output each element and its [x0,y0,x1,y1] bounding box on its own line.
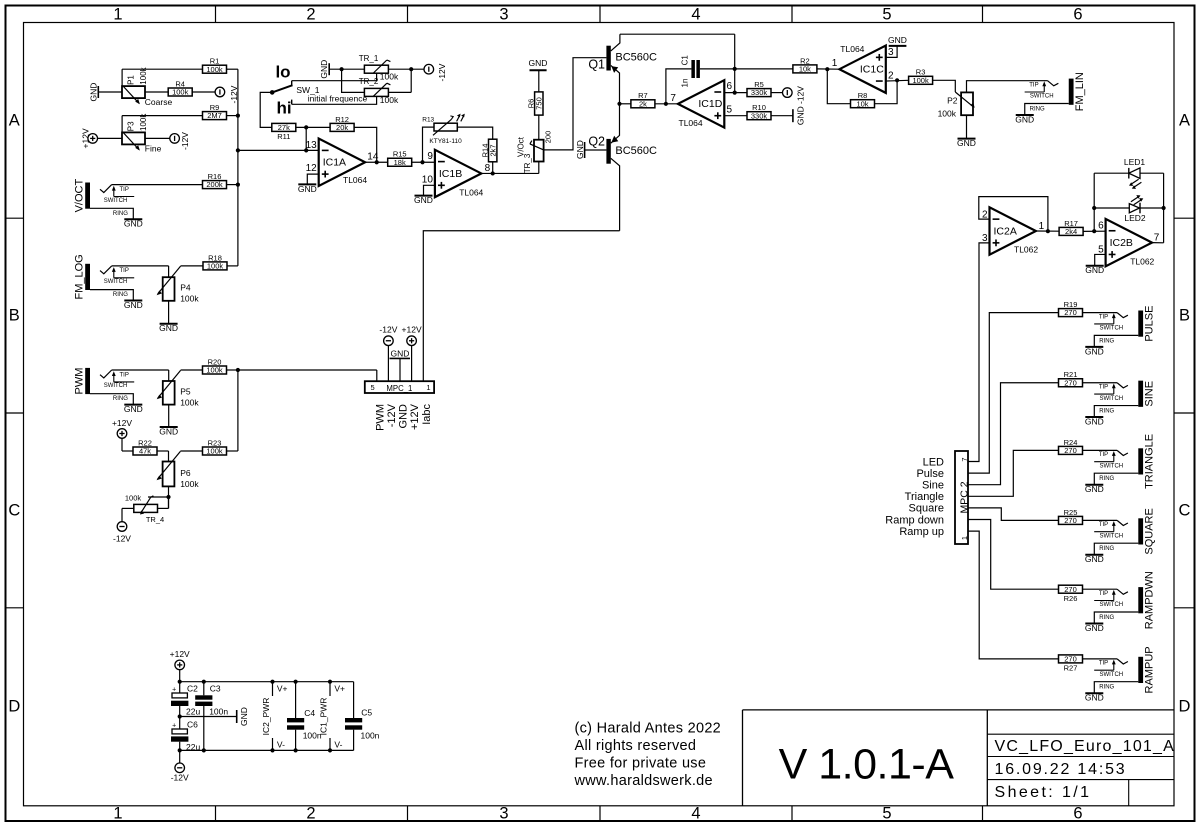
resistor R20 [203,366,227,374]
wire [158,507,169,509]
wire [1083,658,1117,660]
wire [179,670,181,693]
node [733,91,737,95]
svg-text:3: 3 [499,6,508,24]
svg-text:GND: GND [957,138,976,148]
wire [179,742,181,763]
svg-text:R6: R6 [527,99,536,109]
svg-text:SWITCH: SWITCH [104,383,128,389]
ground [958,138,976,140]
TRIANGLE switch arrow [1113,453,1115,461]
svg-text:RING: RING [113,396,128,402]
svg-text:GND: GND [1085,484,1104,494]
svg-text:IC1B: IC1B [439,168,462,180]
wire R20 to MPC_1 [238,369,377,371]
trimmer TR_4 [134,504,158,512]
svg-text:16.09.22 14:53: 16.09.22 14:53 [995,761,1127,778]
op-amp IC1D [678,80,724,127]
node [895,78,899,82]
svg-text:Fine: Fine [145,144,162,154]
svg-text:GND: GND [159,323,178,333]
svg-text:100k: 100k [125,494,142,503]
node emitters [617,102,621,106]
FM_LOG tip contact [100,266,112,274]
svg-text:C: C [1179,502,1191,520]
thermistor R13 KTY81-110 [434,123,457,131]
svg-text:200: 200 [544,131,553,144]
svg-text:100k: 100k [206,65,223,74]
resistor R26 [1059,585,1083,593]
resistor R9 [203,112,227,120]
jack PULSE [1138,311,1143,337]
jack FM_LOG [85,264,90,290]
RAMPDWN switch line [1094,600,1114,602]
wire main bus [237,69,239,266]
wire P6 bottom [168,486,170,508]
svg-text:B: B [9,307,20,325]
resistor R21 [1059,379,1083,387]
svg-text:RING: RING [1030,107,1045,113]
wire LED right branch [1163,173,1165,243]
svg-text:R11: R11 [277,132,290,141]
svg-text:V/OCT: V/OCT [74,179,86,213]
svg-text:PULSE: PULSE [1144,306,1156,342]
wire [538,70,540,92]
node [340,67,344,71]
resistor R3 [909,76,933,84]
wire IC1B + to ground [424,185,435,195]
svg-text:100k: 100k [180,294,199,304]
svg-text:3: 3 [982,233,988,244]
PWM tip contact [100,370,112,378]
svg-text:270: 270 [1064,516,1077,525]
svg-text:TL062: TL062 [1014,245,1038,255]
ground [530,69,547,71]
node [178,680,182,684]
resistor R12 [330,123,354,131]
node [328,680,332,684]
wire main bus lower [237,370,239,451]
jack RAMPUP [1138,657,1143,683]
svg-text:MPC_1: MPC_1 [386,384,412,393]
resistor R5 [747,89,771,97]
svg-text:V+: V+ [334,684,345,694]
wire IC2B output [1152,242,1164,244]
resistor R4 [168,88,192,96]
svg-text:C2: C2 [187,684,198,694]
svg-text:IC1A: IC1A [323,157,346,169]
LED LED2 [1094,207,1129,209]
wire [226,68,238,70]
wire [181,369,203,371]
LED LED1 [1094,172,1129,174]
svg-text:RING: RING [1099,685,1114,691]
FM_LIN switch line [1025,91,1045,93]
svg-text:5: 5 [727,105,733,116]
svg-text:R22: R22 [138,438,152,447]
node [825,67,829,71]
wire pin6 [724,92,747,94]
svg-text:9: 9 [427,151,433,162]
wire [771,115,793,117]
svg-text:IC2B: IC2B [1110,237,1133,249]
svg-text:RING: RING [1099,476,1114,482]
svg-text:GND: GND [529,58,548,68]
trimmer TR_3 [534,140,544,162]
ground [1086,265,1104,267]
svg-text:RING: RING [113,211,128,217]
ground [298,183,316,185]
+12V supply [175,660,185,670]
svg-text:V-: V- [277,740,285,750]
svg-text:3: 3 [499,805,508,823]
wire switch common [260,92,272,127]
svg-text:IC2_PWR: IC2_PWR [261,698,271,736]
svg-text:P1: P1 [126,75,135,85]
svg-text:R25: R25 [1064,508,1078,517]
node [178,714,182,718]
node [375,160,379,164]
V/OCT ring wire [90,208,133,219]
svg-text:GND: GND [124,404,143,414]
svg-text:TL064: TL064 [840,44,864,54]
wire pin3 to R25 [968,508,1058,521]
svg-text:GND: GND [159,426,178,436]
wire TR_1 wiper stub [373,72,377,74]
wire [655,103,678,105]
svg-text:R26: R26 [1064,594,1078,603]
svg-text:100k: 100k [207,262,224,271]
jack TRIANGLE [1138,448,1143,474]
svg-text:GND: GND [795,106,805,125]
capacitor C4 100n [295,682,297,718]
wire [192,91,215,93]
svg-text:100n: 100n [361,731,380,741]
svg-text:RING: RING [113,292,128,298]
svg-text:-12V: -12V [379,325,397,335]
svg-text:D: D [1179,698,1191,716]
-12V supply [783,88,793,98]
ground [1085,346,1103,348]
svg-text:hi: hi [276,99,291,118]
svg-text:P4: P4 [180,283,191,293]
wire [1083,230,1105,232]
wire TR_3 bottom to IC1B out [538,162,540,174]
wire [329,68,364,70]
svg-text:BC560C: BC560C [615,145,657,157]
LED1 arrows [1132,179,1139,184]
svg-text:R8: R8 [858,91,868,100]
svg-text:GND: GND [1085,416,1104,426]
svg-text:270: 270 [1064,655,1077,664]
svg-text:www.haraldswerk.de: www.haraldswerk.de [574,773,713,789]
ground [1085,416,1103,418]
-12V supply [384,336,394,346]
capacitor C6 22u [172,729,187,734]
svg-text:TIP: TIP [1099,661,1108,667]
PWM switch arrow [113,373,115,382]
V/OCT tip contact [100,185,112,193]
svg-text:R4: R4 [175,79,185,88]
svg-text:1: 1 [960,536,969,540]
svg-text:100k: 100k [180,479,199,489]
resistor R22 [133,447,157,455]
wire [410,69,412,92]
svg-text:V-: V- [334,740,342,750]
wire pin5 to R21 [968,383,1058,485]
svg-text:P6: P6 [180,468,191,478]
wire [181,265,204,267]
svg-text:6: 6 [1073,805,1082,823]
svg-text:FM_LIN: FM_LIN [1074,72,1086,111]
wire IC1C pin3 to ground [886,46,897,57]
wire [227,265,238,267]
svg-text:10k: 10k [856,99,868,108]
IC1 power pins [329,682,331,696]
svg-text:BC560C: BC560C [615,51,657,63]
svg-text:Free for private use: Free for private use [575,756,707,772]
wire [112,184,203,186]
svg-text:V+: V+ [277,684,288,694]
svg-text:Iabc: Iabc [421,404,433,425]
SQUARE switch arrow [1113,523,1115,531]
svg-text:R23: R23 [208,438,222,447]
jack PWM [85,368,90,394]
node [733,67,737,71]
wire [1083,588,1117,590]
FM_LOG switch arrow [113,269,115,278]
SINE tip contact [1117,383,1128,388]
resistor R23 [203,447,227,455]
svg-text:8: 8 [485,163,491,174]
svg-text:+12V: +12V [409,403,421,430]
svg-text:Triangle: Triangle [905,491,944,503]
ground [160,426,178,428]
svg-text:330k: 330k [751,111,768,120]
wire IC2A output [1036,230,1059,232]
svg-text:R21: R21 [1064,370,1078,379]
svg-text:TIP: TIP [1099,522,1108,528]
svg-text:2M7: 2M7 [207,111,222,120]
connector MPC_2 [955,451,968,544]
svg-text:RAMPUP: RAMPUP [1144,646,1156,693]
svg-text:100k: 100k [938,108,957,118]
jack FM_LIN [1069,79,1074,105]
svg-text:6: 6 [1073,6,1082,24]
wire [1083,519,1117,521]
svg-text:FM_LOG: FM_LOG [74,254,86,299]
wire P5 to ground [168,405,170,427]
wire [387,346,389,382]
svg-text:18k: 18k [394,158,406,167]
RAMPUP switch line [1094,669,1114,671]
svg-text:RING: RING [1099,409,1114,415]
wire [412,161,435,163]
svg-text:+: + [172,686,176,693]
svg-text:TIP: TIP [120,372,129,378]
wire [112,369,169,371]
wire [388,68,424,70]
node IC1A input junction [236,148,240,152]
svg-text:270: 270 [1064,378,1077,387]
wire pin1 to R27 [968,531,1058,659]
RAMPDWN switch arrow [1113,592,1115,600]
SQUARE switch line [1094,531,1114,533]
ground [97,86,99,98]
+12V supply [117,429,127,439]
TRIANGLE switch line [1094,461,1114,463]
svg-text:R18: R18 [208,253,222,262]
wire [388,91,411,93]
node R20 junction [236,368,240,372]
resistor R2 [793,65,817,73]
svg-text:2k4: 2k4 [1065,227,1077,236]
svg-text:GND: GND [575,140,585,159]
svg-text:PWM: PWM [374,404,386,431]
jack RAMPDWN [1138,587,1143,613]
+12V supply [88,134,98,144]
-12V supply [117,522,127,532]
FM_LIN switch arrow [1043,84,1045,92]
wire [411,346,413,382]
svg-text:Q2: Q2 [588,134,605,148]
svg-text:lo: lo [275,63,290,82]
svg-text:47k: 47k [139,447,151,456]
op-amp IC2B [1106,219,1152,266]
node [1046,229,1050,233]
node [491,171,495,175]
svg-text:6: 6 [1098,220,1104,231]
node [304,148,308,152]
wire P3 to R9 row [121,116,123,133]
svg-text:IC2A: IC2A [994,225,1017,237]
wire [157,450,169,452]
svg-text:GND: GND [239,707,249,726]
wire [179,706,181,729]
wire IC1A + input to ground [307,174,318,184]
feedback R8 [827,69,850,104]
ground [236,710,238,723]
svg-text:270: 270 [1064,585,1077,594]
svg-text:GND: GND [888,35,907,45]
svg-text:GND: GND [124,219,143,229]
wire LED branch [1093,173,1095,231]
PULSE switch arrow [1113,316,1115,324]
svg-text:Square: Square [909,503,944,515]
thermistor arrows [457,116,460,122]
svg-text:IC1_PWR: IC1_PWR [319,698,329,736]
wire [121,438,123,451]
svg-text:R15: R15 [393,150,407,159]
FM_LIN tip contact [1048,81,1059,86]
wire [1083,382,1117,384]
svg-text:C3: C3 [210,684,221,694]
-12V supply [175,763,185,773]
svg-text:1n: 1n [681,79,690,88]
svg-text:R19: R19 [1064,300,1078,309]
FM_LIN ring wire [1025,104,1069,116]
wire pin2 to R26 [968,520,1058,590]
wire [122,507,134,509]
wire lo throw to TR_1 wiper [292,73,377,80]
svg-text:R3: R3 [916,68,926,77]
svg-text:TIP: TIP [1029,83,1038,89]
RAMPUP tip contact [1117,659,1128,664]
V/OCT switch line [114,196,134,198]
SINE switch arrow [1113,386,1115,394]
-12V supply [215,87,225,97]
LED2 arrows [1131,197,1138,202]
svg-text:5: 5 [882,6,891,24]
wire [98,91,122,93]
svg-text:750: 750 [535,97,544,110]
svg-text:-12V: -12V [795,86,805,104]
svg-text:SINE: SINE [1144,381,1156,407]
svg-text:100k: 100k [180,398,199,408]
svg-text:TL062: TL062 [1130,257,1154,267]
node [202,748,206,752]
op-amp IC1B [435,150,481,197]
wire R3 to P2 wiper [933,80,956,92]
PWM ring wire [90,394,133,405]
wire [771,92,783,94]
trimmer TR_2 [364,88,388,96]
resistor R6 [535,92,543,115]
power top rail [180,681,354,683]
node R9 junction [236,114,240,118]
svg-text:Sine: Sine [922,480,944,492]
svg-text:TIP: TIP [1099,452,1108,458]
svg-text:10k: 10k [799,65,811,74]
svg-text:RING: RING [1099,546,1114,552]
capacitor C1 1n [666,69,692,104]
svg-text:+12V: +12V [81,128,91,148]
svg-text:P2: P2 [947,96,958,106]
wire [226,115,238,117]
svg-text:RING: RING [1099,338,1114,344]
svg-text:6: 6 [727,81,733,92]
wire [492,162,494,174]
svg-text:2: 2 [306,805,315,823]
wire [98,137,123,139]
wire [1083,312,1117,314]
svg-text:GND: GND [1085,693,1104,703]
svg-text:C6: C6 [187,720,198,730]
resistor R15 [388,158,412,166]
wire IC2A feedback [979,197,1048,232]
svg-text:LED2: LED2 [1124,213,1146,223]
node [409,67,413,71]
svg-text:C1: C1 [681,55,690,66]
jack SQUARE [1138,518,1143,544]
node R16 junction [236,183,240,187]
svg-text:SWITCH: SWITCH [1099,672,1123,678]
svg-text:3: 3 [888,47,894,58]
svg-text:GND: GND [298,184,317,194]
resistor R1 [203,65,227,73]
svg-text:-12V: -12V [386,403,398,427]
svg-text:1: 1 [832,58,838,69]
svg-text:-12V: -12V [171,773,189,783]
node [270,680,274,684]
wire mid to ground [180,716,237,718]
resistor R14 [489,139,497,162]
wire Q2 collector to MPC_1 [423,231,619,381]
node [202,680,206,684]
svg-text:22u: 22u [186,707,200,717]
svg-text:100k: 100k [206,447,223,456]
svg-text:initial frequence: initial frequence [308,93,368,103]
